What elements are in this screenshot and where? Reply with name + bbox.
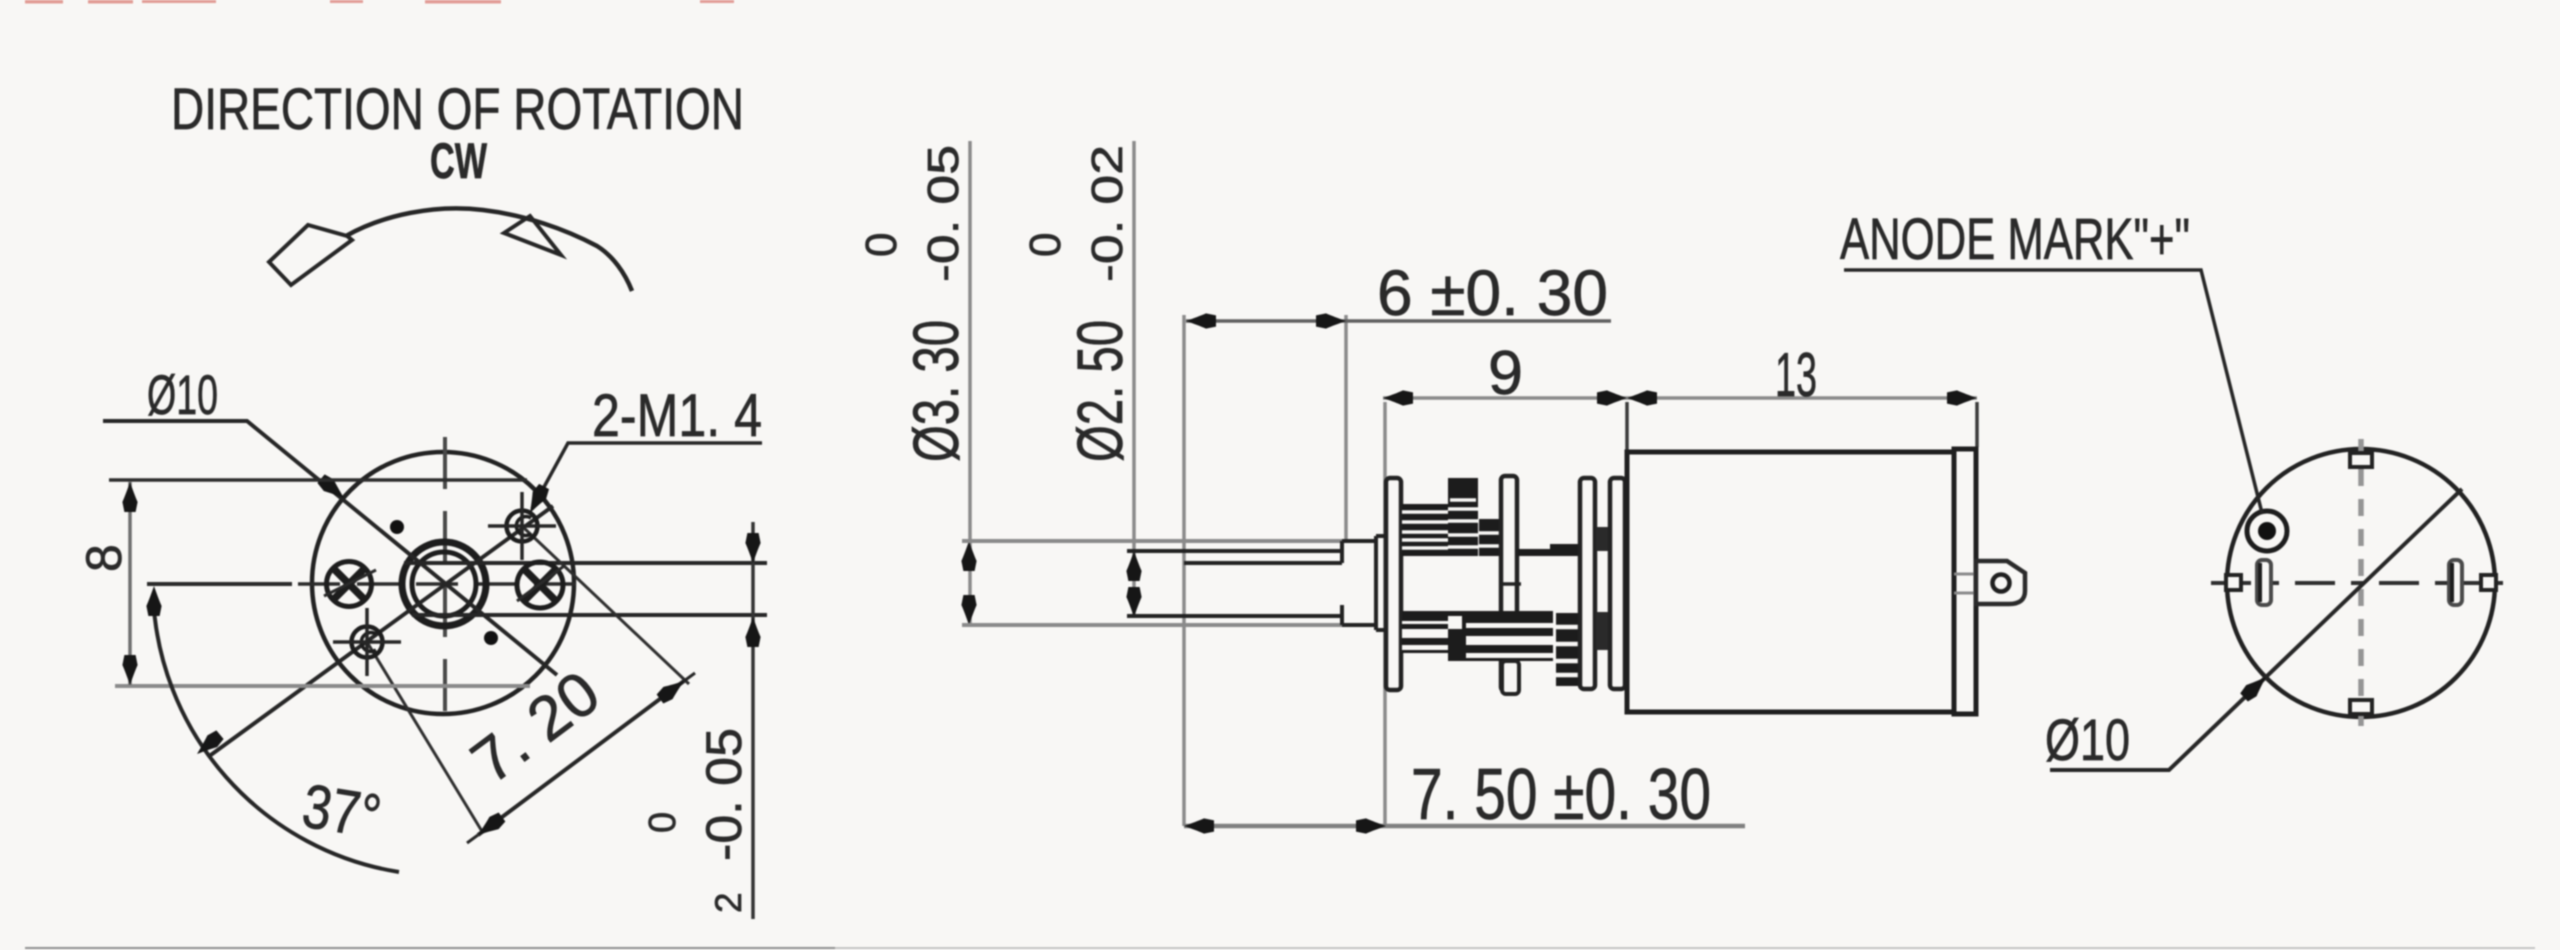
svg-text:0: 0: [1021, 233, 1070, 257]
rear diameter line: [2050, 489, 2462, 770]
angle arc 37: [146, 586, 399, 872]
spacer blocks: [1596, 527, 1609, 650]
svg-text:Ø3. 30: Ø3. 30: [900, 320, 972, 462]
ext line dia2.50: [1126, 141, 1141, 617]
motor end cap: [1954, 449, 1976, 714]
edge artifacts red dashes: [25, 0, 734, 4]
svg-text:7. 50 ±0. 30: 7. 50 ±0. 30: [1411, 755, 1711, 835]
shaft dia2.50 outline: [1127, 551, 1342, 616]
shaft boss circles: [402, 542, 486, 626]
left view main circle: [312, 452, 574, 714]
svg-text:Ø2. 50: Ø2. 50: [1064, 320, 1136, 462]
upper layshaft T4: [1499, 544, 1581, 584]
svg-text:CW: CW: [430, 133, 488, 189]
label O10 left: [147, 363, 218, 426]
brush slot left: [2257, 560, 2271, 605]
svg-text:-0. 05: -0. 05: [919, 145, 968, 282]
svg-text:9: 9: [1488, 339, 1523, 408]
phillips screw right: [517, 562, 564, 608]
ext line flat end: [1344, 315, 1348, 541]
gearbox plate P3: [1580, 478, 1595, 689]
crimp tab left: [2226, 575, 2241, 590]
anode leader: [1844, 270, 2262, 513]
dot top-left: [390, 520, 404, 534]
title text CW: [430, 133, 488, 189]
brush slot right: [2449, 560, 2462, 605]
rear v-centerline: [2358, 439, 2364, 726]
dimension 9 and 13: [1383, 339, 1977, 410]
label ANODE MARK: [1840, 207, 2190, 272]
rotation arc CW: [269, 208, 632, 291]
dimension 7.50: [1184, 755, 1745, 835]
gearbox plate P4: [1610, 478, 1625, 689]
gear T1: [1402, 504, 1449, 556]
dimension 7.20: [459, 658, 695, 843]
phillips screw left: [324, 562, 376, 607]
gear T3: [1479, 519, 1501, 556]
gearbox plate P1: [1386, 478, 1401, 690]
rear h-centerline: [2211, 581, 2510, 585]
anode mark: [2247, 511, 2287, 551]
bottom flat line: [115, 684, 530, 688]
edge artifact bottom line: [25, 947, 2535, 949]
svg-text:0: 0: [642, 812, 684, 833]
diameter line A: [103, 421, 557, 675]
label 2-M1.4: [523, 382, 762, 517]
svg-text:-0. 05: -0. 05: [696, 728, 752, 861]
gear pinion T2: [1448, 478, 1478, 556]
ext line motor end: [1975, 402, 1979, 447]
ext line dia3.30: [961, 141, 976, 625]
label O10 right: [2045, 708, 2130, 773]
ext line motor face: [1625, 402, 1629, 452]
M1.4 screw top-right: [488, 492, 556, 560]
top flat line: [109, 478, 527, 482]
screw axis line D: [208, 506, 553, 757]
lower gear B2: [1556, 613, 1581, 686]
svg-text:2-M1. 4: 2-M1. 4: [592, 382, 762, 449]
ext line shaft tip: [1182, 315, 1186, 826]
shaft dia3.30 outline: [962, 536, 1387, 630]
svg-text:Ø10: Ø10: [2045, 708, 2130, 773]
svg-text:Ø10: Ø10: [147, 363, 218, 426]
dot bottom-right: [484, 631, 498, 645]
dimension 8: [76, 482, 138, 685]
svg-text:37°: 37°: [298, 772, 386, 852]
svg-text:2: 2: [708, 892, 749, 913]
rotated dim dia3.30: [857, 145, 972, 462]
svg-text:-0. 02: -0. 02: [1083, 145, 1132, 282]
horizontal centerline: [147, 582, 592, 586]
svg-text:8: 8: [76, 544, 132, 572]
extension line E1: [524, 528, 689, 684]
M1.4 screw bottom-left: [333, 608, 401, 676]
svg-text:6 ±0. 30: 6 ±0. 30: [1377, 257, 1608, 329]
motor body: [1627, 452, 1954, 712]
rear circle: [2227, 449, 2495, 717]
gearbox plate P2: [1501, 476, 1517, 691]
crimp tab right: [2481, 575, 2496, 590]
ext line gear face: [1383, 402, 1387, 826]
rotated dim dia2.50: [1021, 145, 1136, 462]
shaft flat chords: [404, 563, 767, 615]
dimension 2 tol: [642, 522, 761, 919]
extension line E2: [367, 642, 483, 833]
lower axle G5: [1502, 661, 1519, 694]
vertical centerline: [443, 437, 447, 723]
svg-text:0: 0: [857, 233, 906, 257]
dimension 6: [1186, 257, 1611, 329]
terminal tab: [1976, 561, 2025, 604]
svg-text:13: 13: [1775, 341, 1817, 410]
lower gear B1: [1402, 611, 1553, 661]
title text DIRECTION OF ROTATION: [171, 77, 744, 142]
svg-text:ANODE MARK"+": ANODE MARK"+": [1840, 207, 2190, 272]
crimp tab top: [2350, 453, 2372, 467]
crimp tab bottom: [2350, 700, 2372, 714]
